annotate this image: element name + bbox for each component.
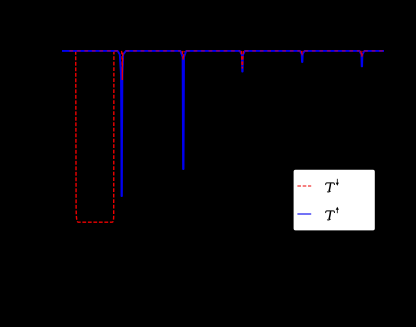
superscript down arrow [336,179,338,184]
superscript up arrow [336,209,338,214]
curve T-down small dip at fourth antiresonance [301,51,303,54]
legend label T-up (italic T glyph) [326,211,335,220]
curve T-down small dip at second antiresonance [182,51,184,60]
curve T-up (blue solid transmission line with antiresonance dips) [62,51,384,196]
legend box [294,170,375,231]
curve T-down small dip at third antiresonance [241,51,243,69]
curve T-down (red dashed): wide transmission gap well [76,51,114,222]
legend blue solid sample [297,213,311,215]
legend red dashed sample [297,185,311,187]
curve T-down small dip at fifth antiresonance [361,51,363,57]
legend label T-down (italic T glyph) [326,183,335,192]
curve T-down small dip at first antiresonance [122,51,124,80]
curve T-down baseline dashes overlaying blue baseline (blend to purple) [69,50,384,52]
